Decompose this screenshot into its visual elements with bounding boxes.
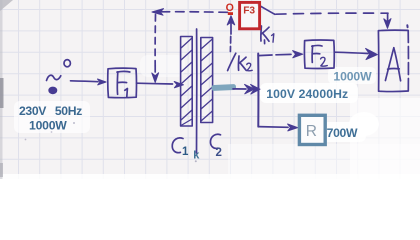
wire: F1 to capacitor plate: [137, 82, 184, 88]
wire: top dashed feedback line (left part) with left arrowhead: [152, 9, 228, 16]
resistor R (load box): [299, 115, 325, 144]
capacitor shaft k (moving dielectric line): [196, 29, 198, 153]
scan edge artifacts: [0, 0, 13, 179]
block A (consumer): [378, 25, 408, 91]
wire: F2 to A: [335, 48, 378, 59]
wire: dashed vertical measuring tap to input wire: [152, 15, 159, 83]
svg-text:1000W: 1000W: [333, 69, 372, 83]
source G1 (AC supply symbol): [47, 60, 71, 94]
thick measured-output arrow (teal): [211, 84, 260, 94]
node O (red terminal): [226, 2, 234, 15]
value label 1000W (at F2): [333, 69, 372, 83]
switch K1 blade: [258, 5, 275, 15]
capacitor plate C1 (hatched): [181, 37, 193, 127]
block F2: [304, 40, 334, 68]
wire: junction to R: [258, 124, 297, 131]
value label 230V 50Hz: [19, 104, 82, 118]
supervisory unit F3 (red box): [240, 2, 260, 28]
paper background: [0, 0, 420, 179]
wire: source to F1: [71, 79, 107, 85]
label K2: [238, 56, 252, 71]
label subscript 2 of C2: [216, 147, 222, 159]
svg-text:1: 1: [182, 146, 189, 158]
stray pen specks: [25, 122, 197, 162]
block F1: [108, 68, 137, 98]
svg-text:O: O: [226, 2, 234, 14]
arrow up to node O: [227, 16, 235, 34]
label C2: [210, 134, 220, 148]
label C1: [172, 138, 183, 153]
svg-text:100V 24000Hz: 100V 24000Hz: [266, 87, 348, 101]
svg-text:700W: 700W: [327, 126, 358, 140]
label subscript 1 of C1: [182, 146, 189, 158]
value label 100V 24000Hz: [266, 87, 348, 101]
svg-text:R: R: [306, 123, 317, 140]
white-out patches: [0, 55, 420, 179]
svg-text:2: 2: [216, 147, 222, 159]
wire: junction to F2 (sketchy dashed): [258, 51, 303, 58]
label k (capacitor shaft): [193, 150, 200, 162]
wire: top dashed feedback line (right part): [276, 13, 388, 14]
wire: dashed segment above K2: [229, 37, 231, 52]
value label 700W (at R): [327, 126, 358, 140]
svg-text:F3: F3: [243, 6, 255, 17]
node bus (junction vertical wire): [258, 40, 264, 127]
arrow down into block A: [384, 14, 391, 29]
svg-text:k: k: [193, 150, 200, 162]
value label 1000W (input): [29, 119, 67, 133]
svg-text:230V 50Hz: 230V 50Hz: [19, 104, 82, 118]
switch K2 blade: [228, 53, 236, 70]
svg-text:1000W: 1000W: [29, 119, 67, 133]
ink drawing: [47, 5, 409, 153]
capacitor plate C2 (hatched): [201, 38, 213, 123]
label K1: [261, 26, 274, 42]
